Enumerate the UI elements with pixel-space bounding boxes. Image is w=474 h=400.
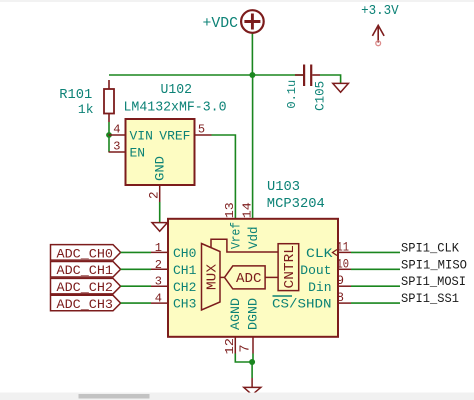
svg-text:1k: 1k (78, 102, 94, 117)
svg-text:GND: GND (153, 156, 168, 181)
svg-text:SPI1_MOSI: SPI1_MOSI (401, 274, 466, 289)
wire: U102 GND to ground (159, 202, 161, 223)
svg-text:ADC_CH0: ADC_CH0 (57, 246, 114, 261)
pin 12 stub (234, 337, 236, 354)
svg-text:+3.3V: +3.3V (361, 4, 399, 19)
wire: DGND to junction (252, 354, 254, 363)
wire: pin 8 to label (351, 302, 400, 304)
svg-text:4: 4 (155, 292, 162, 306)
svg-text:AGND: AGND (228, 298, 243, 330)
adc block (225, 266, 266, 289)
svg-text:1: 1 (155, 241, 162, 255)
svg-text:MUX: MUX (206, 264, 221, 290)
svg-text:4: 4 (113, 123, 120, 137)
power symbol +VDC (241, 10, 264, 33)
overline CS (273, 295, 293, 297)
svg-text:U102: U102 (161, 83, 193, 98)
pin 8 stub (338, 302, 351, 304)
svg-text:7: 7 (239, 344, 254, 352)
power symbol +3.3V (unconnected) (372, 25, 384, 45)
wire: junction down to EN (108, 135, 110, 152)
svg-text:CLK: CLK (306, 246, 333, 261)
mux block (202, 244, 221, 311)
svg-text:U103: U103 (267, 179, 300, 195)
svg-text:CH1: CH1 (173, 263, 197, 278)
wire: ADC_CH0 to pin 1 (121, 251, 151, 253)
wire: ADC_CH1 to pin 2 (121, 268, 151, 270)
regulator U102 body (126, 119, 195, 185)
svg-text:2: 2 (155, 258, 162, 272)
pin 9 stub (338, 285, 351, 287)
wire: resistor to junction (108, 122, 110, 135)
global label ADC_CH3 (51, 295, 121, 312)
pin 3 stub (151, 285, 168, 287)
svg-text:9: 9 (337, 274, 345, 288)
svg-text:SPI1_SS1: SPI1_SS1 (401, 291, 459, 306)
svg-text:Vref: Vref (229, 222, 244, 249)
wire: +VDC drop to rail (251, 33, 253, 76)
svg-text:CH3: CH3 (173, 297, 196, 312)
internal wire adc to cntrl (265, 276, 278, 278)
svg-text:MCP3204: MCP3204 (267, 196, 325, 212)
pin 2 GND stub (159, 185, 161, 202)
capacitor C105 (295, 65, 320, 87)
wire: AGND to junction (235, 354, 252, 363)
pin 10 stub (338, 268, 351, 270)
svg-text:VIN: VIN (130, 129, 153, 144)
svg-text:12: 12 (223, 338, 237, 355)
svg-text:14: 14 (241, 202, 255, 218)
ground bottom (244, 387, 261, 394)
pin 3 EN stub (109, 151, 126, 153)
scrollbar thumb (79, 394, 150, 399)
wire: cap to ground (320, 75, 341, 83)
wire: VREF to U103 pin 13 (212, 135, 236, 219)
svg-text:CH2: CH2 (173, 280, 196, 295)
internal wire mux to cntrl (211, 239, 278, 252)
svg-text:ADC_CH2: ADC_CH2 (57, 280, 114, 295)
svg-text:3: 3 (113, 140, 120, 154)
svg-text:8: 8 (337, 291, 345, 305)
ground under U102 (152, 223, 167, 232)
wire: pin 10 to label (351, 268, 400, 270)
svg-text:DGND: DGND (246, 298, 261, 330)
wire: ADC_CH3 to pin 4 (121, 302, 151, 304)
pin 4 stub (151, 302, 168, 304)
pin 11 stub (338, 251, 351, 253)
svg-text:ADC_CH1: ADC_CH1 (57, 263, 114, 278)
wire: ADC_CH2 to pin 3 (121, 285, 151, 287)
pin 5 VREF stub (195, 134, 212, 136)
svg-text:Vdd: Vdd (246, 227, 261, 250)
svg-text:CNTRL: CNTRL (283, 245, 298, 289)
global label ADC_CH2 (51, 278, 121, 295)
wire: rail down to U103 pin 14 (252, 75, 254, 219)
clk arrow (333, 250, 338, 256)
cntrl block (278, 244, 299, 291)
scrollbar track (0, 393, 474, 400)
global label ADC_CH1 (51, 262, 121, 279)
global label ADC_CH0 (51, 245, 121, 262)
ADC U103 body (168, 219, 338, 337)
svg-text:10: 10 (337, 257, 350, 271)
pin 1 stub (151, 251, 168, 253)
svg-text:SPI1_MISO: SPI1_MISO (401, 257, 467, 272)
svg-text:ADC: ADC (236, 272, 262, 287)
pin 7 stub (252, 337, 254, 354)
wire: junction to ground (251, 362, 253, 378)
wire: ground pin (251, 378, 253, 387)
svg-text:C105: C105 (314, 81, 328, 111)
wire: pin 9 to label (351, 285, 400, 287)
pin 2 stub (151, 268, 168, 270)
junction: VIN node (106, 132, 112, 138)
svg-text:2: 2 (147, 191, 161, 199)
svg-text:3: 3 (155, 275, 162, 289)
svg-text:Din: Din (308, 280, 331, 295)
svg-text:CS/SHDN: CS/SHDN (272, 297, 332, 312)
wire: pin 11 to label (351, 251, 400, 253)
svg-text:CH0: CH0 (173, 246, 196, 261)
ground at C105 (333, 83, 349, 92)
svg-text:SPI1_CLK: SPI1_CLK (401, 240, 459, 255)
internal wire mux to adc (220, 276, 225, 278)
svg-text:ADC_CH3: ADC_CH3 (57, 297, 114, 312)
resistor R101 (104, 80, 114, 122)
svg-text:Dout: Dout (300, 263, 331, 278)
svg-text:13: 13 (223, 202, 237, 218)
junction: rail node (249, 72, 255, 78)
svg-text:0.1u: 0.1u (285, 80, 299, 109)
svg-text:5: 5 (198, 123, 205, 137)
pin 4 VIN stub (109, 134, 126, 136)
junction: ground node (249, 359, 255, 365)
svg-text:LM4132xMF-3.0: LM4132xMF-3.0 (124, 101, 227, 116)
svg-text:EN: EN (130, 146, 146, 161)
wire: top rail horizontal (109, 74, 304, 76)
svg-text:+VDC: +VDC (203, 15, 239, 32)
svg-text:VREF: VREF (159, 129, 190, 144)
svg-text:11: 11 (337, 240, 350, 254)
svg-text:R101: R101 (59, 87, 92, 103)
